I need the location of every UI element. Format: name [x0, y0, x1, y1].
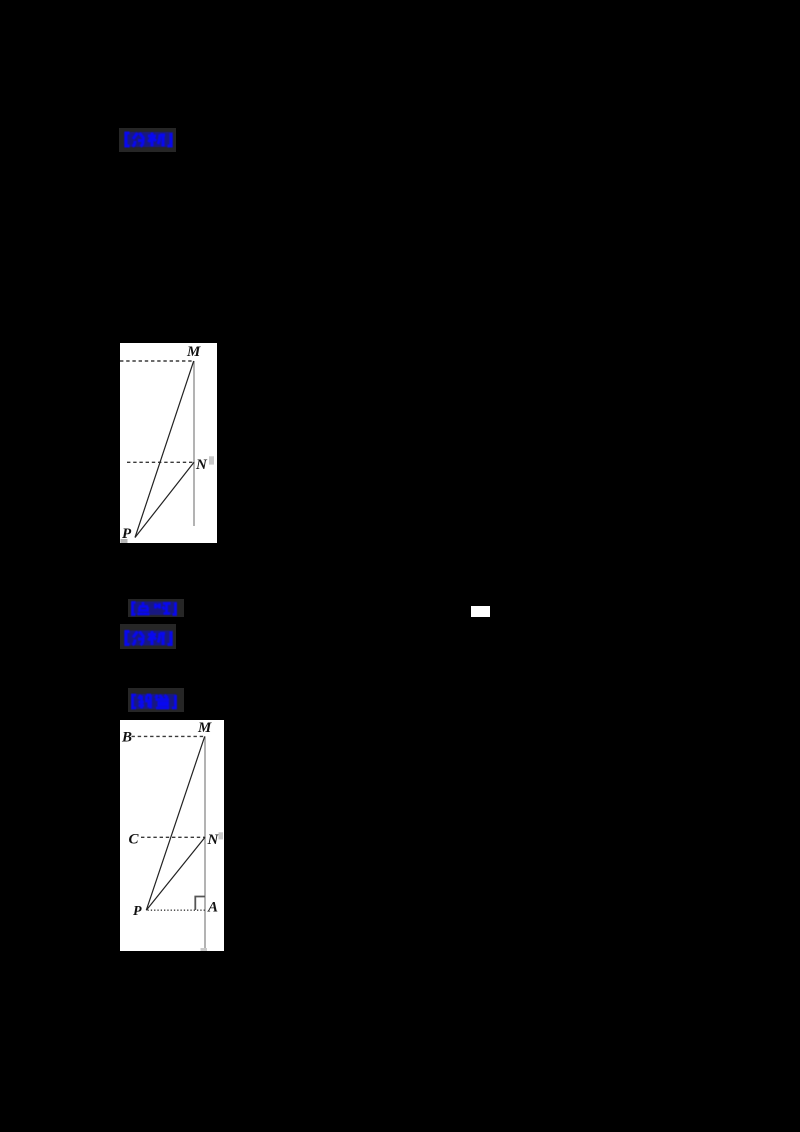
dashed line B-M: [132, 735, 206, 737]
label 【点评】 highlight: [128, 599, 184, 617]
line P-N: [146, 837, 205, 910]
svg-text:B: B: [121, 730, 132, 746]
line P-N: [135, 462, 194, 537]
dashed line at N level: [127, 461, 194, 463]
gray artifact at bottom of vertical line: [201, 948, 208, 951]
gray artifact square near N: [209, 456, 214, 464]
dotted line P-A: [148, 909, 206, 911]
white answer rectangle: [471, 606, 490, 617]
diagram 1: [120, 343, 217, 543]
right angle mark at A: [195, 897, 205, 911]
label 【点评】 blue text: [129, 601, 179, 616]
svg-text:N: N: [207, 832, 220, 848]
gray artifact square near N: [219, 832, 224, 839]
svg-text:C: C: [129, 832, 140, 848]
diagram 2: [120, 720, 224, 951]
label 【分析】 blue text: [122, 131, 175, 148]
svg-text:P: P: [133, 904, 142, 919]
svg-text:M: M: [197, 720, 212, 736]
svg-text:A: A: [207, 900, 218, 916]
line P-M: [135, 361, 194, 538]
svg-text:N: N: [195, 457, 208, 473]
label 【分析】 second highlight: [120, 624, 176, 649]
label 【分析】 highlight: [119, 128, 176, 152]
dashed line at M level: [120, 360, 194, 362]
svg-text:M: M: [186, 344, 201, 360]
line P-M: [146, 736, 204, 910]
label 【解答】 highlight: [128, 688, 184, 712]
gray artifact square bottom-left: [121, 539, 128, 543]
vertical line MN extended: [193, 361, 195, 526]
vertical line through M N A: [204, 736, 206, 949]
dashed line C-N: [141, 836, 205, 838]
label 【解答】 blue text: [129, 693, 179, 710]
label 【分析】 second blue text: [122, 629, 175, 647]
